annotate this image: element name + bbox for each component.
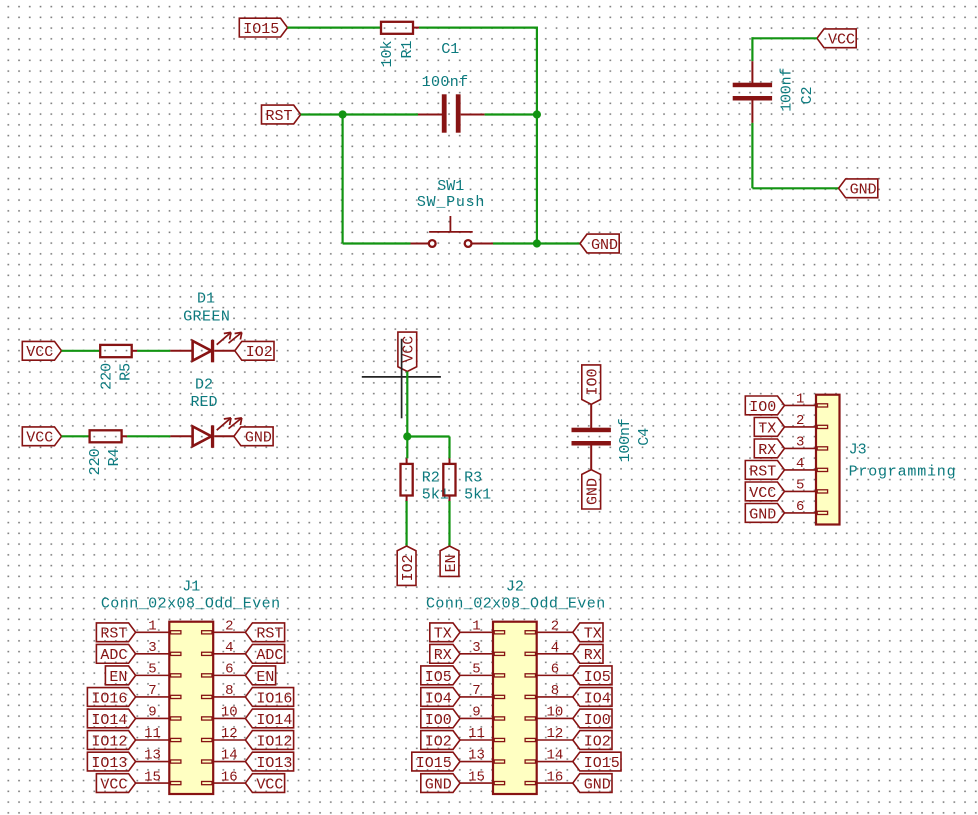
svg-text:8: 8 [551, 683, 559, 699]
wire VCC to R4 [62, 435, 90, 437]
wire R2 to IO2 [406, 501, 408, 546]
pin 5 of J2 [460, 662, 493, 678]
svg-text:5: 5 [148, 662, 156, 678]
svg-text:R5: R5 [117, 363, 134, 381]
pin 3 of J1 [136, 640, 170, 656]
capacitor C2 [733, 61, 772, 123]
net label IO14 at J1 pin 9 [87, 709, 135, 729]
svg-text:14: 14 [546, 748, 563, 764]
value SW_Push [417, 194, 485, 211]
junction node B [533, 110, 541, 118]
value Conn_02x08_Odd_Even of J2 [426, 596, 605, 613]
pin 3 of J3 [785, 435, 817, 451]
net label TX at J3 pin 2 [754, 418, 784, 438]
net label ADC at J1 pin 4 [245, 644, 284, 664]
value 220 of R5 [99, 363, 116, 390]
svg-text:IO14: IO14 [91, 712, 127, 729]
svg-text:IO2: IO2 [425, 733, 452, 750]
svg-text:16: 16 [546, 769, 563, 785]
svg-text:8: 8 [225, 683, 233, 699]
resistor R4 [90, 430, 128, 442]
pin 5 of J3 [785, 478, 817, 494]
svg-text:ADC: ADC [256, 647, 283, 664]
net label VCC at J1 pin 15 [96, 774, 135, 794]
wire R1 to corner [419, 27, 537, 29]
ref C1 [441, 41, 459, 58]
ref C4 [636, 428, 653, 446]
svg-text:TX: TX [584, 626, 602, 643]
pin 11 of J2 [460, 726, 493, 742]
net label RST at J1 pin 2 [245, 623, 284, 643]
svg-text:6: 6 [796, 499, 804, 515]
svg-text:J1: J1 [182, 579, 200, 596]
pin 15 of J1 [136, 769, 170, 785]
svg-text:IO16: IO16 [256, 690, 292, 707]
svg-text:3: 3 [472, 640, 480, 656]
wire C1 to node B [485, 113, 537, 115]
svg-text:13: 13 [468, 748, 485, 764]
svg-text:GND: GND [850, 182, 877, 199]
svg-text:IO2: IO2 [246, 344, 273, 361]
svg-text:5: 5 [796, 478, 804, 494]
svg-text:10k: 10k [379, 41, 396, 68]
value 5k1 of R3 [464, 486, 491, 503]
svg-text:EN: EN [109, 669, 127, 686]
svg-text:13: 13 [144, 748, 161, 764]
svg-text:RX: RX [584, 647, 602, 664]
net label IO16 at J1 pin 7 [87, 688, 135, 708]
svg-text:IO5: IO5 [584, 669, 611, 686]
svg-text:IO14: IO14 [256, 712, 292, 729]
svg-text:R3: R3 [464, 470, 482, 487]
pin 6 of J2 [537, 662, 573, 678]
net label IO5 at J2 pin 6 [573, 666, 612, 686]
net label EN at J1 pin 5 [105, 666, 135, 686]
net label IO0 above C4 [582, 365, 602, 404]
wire R4 to D2 [127, 435, 170, 437]
net label VCC at J3 pin 5 [745, 482, 784, 502]
pin 14 of J1 [213, 748, 245, 764]
power label GND below C4 [582, 470, 602, 509]
svg-text:VCC: VCC [26, 344, 53, 361]
svg-text:RST: RST [256, 626, 283, 643]
wire node A down to SW1 [342, 115, 344, 244]
svg-text:1: 1 [148, 619, 156, 635]
power label GND at SW1 [580, 234, 619, 254]
svg-text:SW1: SW1 [437, 178, 464, 195]
LED D1 [170, 332, 242, 362]
svg-text:14: 14 [221, 748, 238, 764]
value 100nf of C2 [778, 68, 795, 112]
svg-text:R1: R1 [399, 41, 416, 59]
ref R5 [117, 363, 134, 381]
wire node D down to R2 [406, 437, 408, 459]
ref C2 [799, 86, 816, 104]
ref R1 [399, 41, 416, 59]
svg-text:6: 6 [551, 662, 559, 678]
svg-text:220: 220 [99, 363, 116, 390]
ref D2 [195, 377, 213, 394]
svg-text:C4: C4 [636, 428, 653, 446]
svg-text:J2: J2 [506, 579, 524, 596]
connector J1 [169, 622, 213, 794]
net label IO12 at J1 pin 12 [245, 731, 293, 751]
svg-text:100nf: 100nf [422, 74, 469, 91]
net label IO0 at J2 pin 10 [573, 709, 612, 729]
resistor R1 [381, 22, 419, 34]
LED D2 [170, 418, 242, 448]
svg-text:IO12: IO12 [256, 733, 292, 750]
svg-text:IO2: IO2 [584, 733, 611, 750]
svg-text:4: 4 [225, 640, 233, 656]
pin 8 of J2 [537, 683, 573, 699]
wire IO15 to R1 [288, 27, 382, 29]
connector J3 [816, 395, 840, 525]
svg-text:5k1: 5k1 [464, 486, 491, 503]
net label RX at J2 pin 4 [573, 644, 603, 664]
svg-text:IO15: IO15 [416, 755, 452, 772]
power label VCC at R5 [22, 341, 61, 361]
pin 4 of J3 [785, 456, 817, 472]
svg-text:EN: EN [256, 669, 274, 686]
svg-text:IO15: IO15 [584, 755, 620, 772]
net label GND at J2 pin 16 [573, 774, 612, 794]
pin 12 of J1 [213, 726, 245, 742]
pin 4 of J2 [537, 640, 573, 656]
pin 10 of J2 [537, 705, 573, 721]
net label IO14 at J1 pin 10 [245, 709, 293, 729]
resistor R2 [401, 458, 413, 501]
svg-text:3: 3 [796, 435, 804, 451]
wire C2 down [751, 123, 753, 188]
svg-text:VCC: VCC [256, 776, 283, 793]
svg-text:1: 1 [472, 619, 480, 635]
pin 13 of J1 [136, 748, 170, 764]
svg-text:IO5: IO5 [425, 669, 452, 686]
wire VCC to corner [752, 37, 817, 39]
svg-text:4: 4 [796, 456, 804, 472]
svg-text:10: 10 [546, 705, 563, 721]
pin 2 of J1 [213, 619, 245, 635]
wire corner down to C1 right node [536, 27, 538, 115]
svg-text:VCC: VCC [100, 776, 127, 793]
value 5k1 of R2 [422, 486, 449, 503]
svg-text:TX: TX [758, 420, 776, 437]
power label GND at C2 [839, 179, 878, 199]
svg-text:J3: J3 [849, 442, 867, 459]
pin 10 of J1 [213, 705, 245, 721]
value Programming of J3 [849, 464, 956, 481]
svg-text:GREEN: GREEN [183, 309, 230, 326]
svg-text:IO13: IO13 [256, 755, 292, 772]
ref SW1 [437, 178, 464, 195]
power label GND at D2 [234, 427, 273, 447]
net label IO2 at D1 [235, 341, 274, 361]
pin 2 of J3 [785, 413, 817, 429]
svg-text:IO4: IO4 [425, 690, 452, 707]
wire to SW1 pin 1 [343, 242, 411, 244]
svg-text:Programming: Programming [849, 464, 956, 481]
ref D1 [197, 291, 215, 308]
pin 14 of J2 [537, 748, 573, 764]
svg-text:IO0: IO0 [425, 712, 452, 729]
pin 7 of J2 [460, 683, 493, 699]
svg-text:6: 6 [225, 662, 233, 678]
svg-text:IO16: IO16 [91, 690, 127, 707]
graphic line vertical [401, 339, 403, 419]
net label GND at J2 pin 15 [421, 774, 460, 794]
net label IO0 at J2 pin 9 [421, 709, 460, 729]
net label IO15 at J2 pin 13 [412, 752, 460, 772]
ref J3 [849, 442, 867, 459]
svg-text:D1: D1 [197, 291, 215, 308]
svg-text:IO13: IO13 [91, 755, 127, 772]
net label ADC at J1 pin 3 [96, 644, 135, 664]
svg-text:GND: GND [245, 430, 272, 447]
svg-text:R4: R4 [106, 448, 123, 466]
svg-text:10: 10 [221, 705, 238, 721]
svg-text:100nf: 100nf [617, 418, 634, 462]
svg-text:RX: RX [758, 442, 776, 459]
wire branch down to R3 [448, 437, 450, 459]
pin 16 of J1 [213, 769, 245, 785]
svg-text:D2: D2 [195, 377, 213, 394]
capacitor C1 [418, 94, 485, 132]
svg-text:GND: GND [425, 776, 452, 793]
net label IO2 below R2 [397, 546, 417, 585]
value 100nf of C4 [617, 418, 634, 462]
svg-text:RED: RED [190, 394, 217, 411]
net label IO4 at J2 pin 8 [573, 688, 612, 708]
svg-text:RX: RX [434, 647, 452, 664]
svg-text:11: 11 [144, 726, 161, 742]
ref R3 [464, 470, 482, 487]
pin 2 of J2 [537, 619, 573, 635]
svg-text:11: 11 [468, 726, 485, 742]
ref J1 [182, 579, 200, 596]
svg-text:GND: GND [585, 478, 602, 505]
wire node B down to GND row [536, 115, 538, 244]
wire corner down to C2 [751, 37, 753, 61]
svg-text:Conn_02x08_Odd_Even: Conn_02x08_Odd_Even [426, 596, 605, 613]
wire node D to R3 branch [407, 435, 449, 437]
svg-text:5: 5 [472, 662, 480, 678]
svg-text:3: 3 [148, 640, 156, 656]
svg-text:EN: EN [443, 554, 460, 572]
ref J2 [506, 579, 524, 596]
pin 12 of J2 [537, 726, 573, 742]
svg-text:2: 2 [551, 619, 559, 635]
svg-text:12: 12 [221, 726, 238, 742]
svg-text:SW_Push: SW_Push [417, 194, 485, 211]
svg-text:7: 7 [148, 683, 156, 699]
net label VCC at J1 pin 16 [245, 774, 284, 794]
wire SW1 to GND [493, 242, 580, 244]
value 220 of R4 [87, 448, 104, 475]
wire R3 to EN [448, 501, 450, 546]
svg-text:16: 16 [221, 769, 238, 785]
net label IO15 [239, 18, 287, 38]
net label IO0 at J3 pin 1 [745, 396, 784, 416]
svg-text:2: 2 [225, 619, 233, 635]
svg-text:IO4: IO4 [584, 690, 611, 707]
svg-text:RST: RST [100, 626, 127, 643]
svg-text:GND: GND [749, 506, 776, 523]
net label IO2 at J2 pin 11 [421, 731, 460, 751]
svg-text:GND: GND [591, 237, 618, 254]
power label VCC at R4 [22, 427, 61, 447]
ref R2 [422, 470, 440, 487]
capacitor C4 [572, 404, 611, 469]
pin 6 of J1 [213, 662, 245, 678]
net label RST at J1 pin 1 [96, 623, 135, 643]
net label TX at J2 pin 1 [430, 623, 460, 643]
value RED of D2 [190, 394, 217, 411]
value Conn_02x08_Odd_Even of J1 [101, 596, 280, 613]
svg-text:7: 7 [472, 683, 480, 699]
svg-text:Conn_02x08_Odd_Even: Conn_02x08_Odd_Even [101, 596, 280, 613]
net label IO13 at J1 pin 13 [87, 752, 135, 772]
net label TX at J2 pin 2 [573, 623, 603, 643]
pin 15 of J2 [460, 769, 493, 785]
switch SW1 [411, 216, 494, 247]
junction node C [533, 239, 541, 247]
net label IO13 at J1 pin 14 [245, 752, 293, 772]
pin 1 of J3 [785, 392, 817, 408]
svg-text:IO0: IO0 [585, 368, 602, 395]
svg-text:100nf: 100nf [778, 68, 795, 112]
svg-text:IO0: IO0 [584, 712, 611, 729]
svg-text:12: 12 [546, 726, 563, 742]
svg-text:IO2: IO2 [400, 554, 417, 581]
junction node A [339, 110, 347, 118]
svg-text:IO0: IO0 [749, 399, 776, 416]
net label IO16 at J1 pin 8 [245, 688, 293, 708]
resistor R5 [100, 345, 137, 357]
net label RX at J3 pin 3 [754, 439, 784, 459]
pin 8 of J1 [213, 683, 245, 699]
pin 1 of J2 [460, 619, 493, 635]
svg-text:C1: C1 [441, 41, 459, 58]
pin 11 of J1 [136, 726, 170, 742]
svg-text:RST: RST [749, 463, 776, 480]
value 10k of R1 [379, 41, 396, 68]
wire RST to node A [301, 113, 418, 115]
pin 13 of J2 [460, 748, 493, 764]
net label GND at J3 pin 6 [745, 504, 784, 524]
pin 1 of J1 [136, 619, 170, 635]
value GREEN of D1 [183, 309, 230, 326]
svg-text:2: 2 [796, 413, 804, 429]
svg-text:1: 1 [796, 392, 804, 408]
svg-text:15: 15 [144, 769, 161, 785]
net label RX at J2 pin 3 [430, 644, 460, 664]
svg-text:VCC: VCC [401, 336, 418, 363]
wire VCC to R5 [62, 350, 101, 352]
svg-text:TX: TX [434, 626, 452, 643]
svg-text:VCC: VCC [26, 430, 53, 447]
svg-text:9: 9 [148, 705, 156, 721]
power label VCC at C2 [817, 29, 856, 49]
svg-text:220: 220 [87, 448, 104, 475]
svg-text:VCC: VCC [828, 32, 855, 49]
net label EN below R3 [440, 546, 460, 576]
net label IO5 at J2 pin 5 [421, 666, 460, 686]
pin 3 of J2 [460, 640, 493, 656]
net label IO15 at J2 pin 14 [573, 752, 621, 772]
pin 6 of J3 [785, 499, 817, 515]
wire VCC down to node D [406, 372, 408, 437]
connector J2 [493, 622, 537, 794]
value 100nf of C1 [422, 74, 469, 91]
net label IO2 at J2 pin 12 [573, 731, 612, 751]
net label EN at J1 pin 6 [245, 666, 275, 686]
graphic line horizontal [362, 376, 441, 378]
svg-text:4: 4 [551, 640, 559, 656]
ref R4 [106, 448, 123, 466]
pin 9 of J2 [460, 705, 493, 721]
net label IO12 at J1 pin 11 [87, 731, 135, 751]
wire to GND at C2 [752, 187, 838, 189]
pin 9 of J1 [136, 705, 170, 721]
svg-text:C2: C2 [799, 86, 816, 104]
svg-text:15: 15 [468, 769, 485, 785]
pin 16 of J2 [537, 769, 573, 785]
power label VCC center [398, 332, 418, 371]
pin 7 of J1 [136, 683, 170, 699]
pin 4 of J1 [213, 640, 245, 656]
svg-text:IO15: IO15 [243, 21, 279, 38]
svg-text:VCC: VCC [749, 485, 776, 502]
junction node D [403, 432, 411, 440]
pin 5 of J1 [136, 662, 170, 678]
net label IO4 at J2 pin 7 [421, 688, 460, 708]
resistor R3 [443, 458, 455, 501]
svg-text:R2: R2 [422, 470, 440, 487]
svg-text:ADC: ADC [100, 647, 127, 664]
wire R5 to D1 [137, 350, 170, 352]
net label RST [262, 105, 301, 125]
svg-text:IO12: IO12 [91, 733, 127, 750]
svg-text:9: 9 [472, 705, 480, 721]
svg-text:RST: RST [266, 108, 293, 125]
net label RST at J3 pin 4 [745, 461, 784, 481]
svg-text:GND: GND [584, 776, 611, 793]
